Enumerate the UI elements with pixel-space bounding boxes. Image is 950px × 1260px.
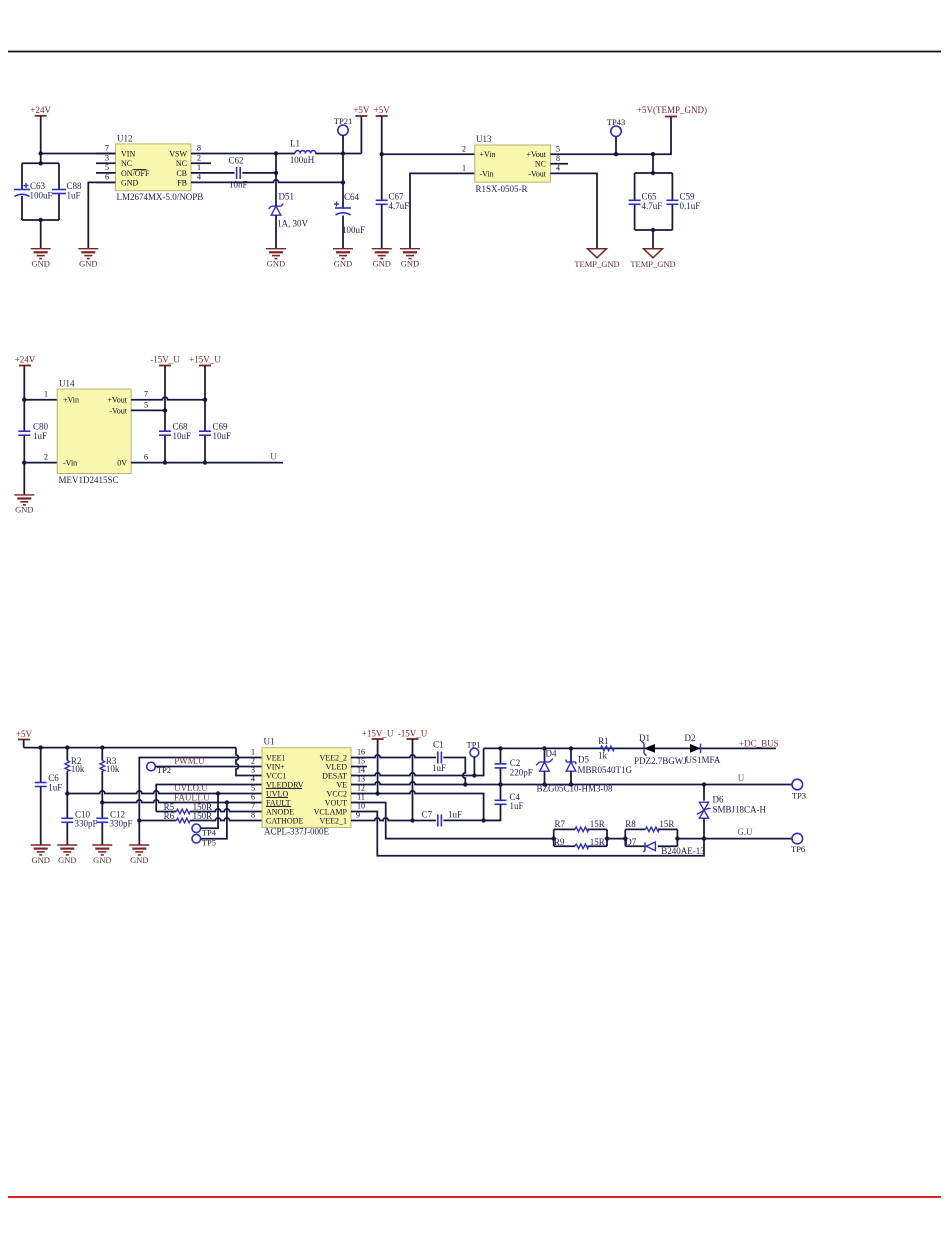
svg-text:C6: C6 — [48, 773, 59, 783]
svg-text:U: U — [270, 452, 277, 462]
svg-text:D2: D2 — [685, 733, 696, 743]
svg-text:ACPL-337J-000E: ACPL-337J-000E — [264, 827, 330, 837]
svg-text:1: 1 — [44, 390, 48, 399]
capacitor C64 (polarized 100uF) — [334, 192, 365, 235]
svg-text:8: 8 — [197, 144, 201, 153]
svg-text:1uF: 1uF — [33, 431, 47, 441]
svg-text:GND: GND — [334, 259, 352, 269]
node bottom of cap rect — [39, 218, 43, 222]
svg-text:FB: FB — [177, 179, 187, 188]
wire stem to cap rect — [652, 154, 654, 173]
svg-text:4: 4 — [197, 173, 201, 182]
wire R3 vertical — [101, 748, 103, 761]
capacitor C68 (10uF) — [159, 422, 191, 442]
converter U14 body — [57, 379, 131, 485]
svg-text:GND: GND — [401, 259, 419, 269]
svg-text:5: 5 — [144, 401, 148, 410]
wire gate line to TP6 — [677, 838, 792, 840]
wire clamp rail to +DC_BUS — [484, 747, 776, 749]
node rail/D5 — [569, 746, 573, 750]
node FAULT/TP5 — [225, 800, 229, 804]
capacitor C63 (polarized 100uF) — [14, 181, 53, 201]
resistor R3 (10k) — [100, 756, 120, 774]
svg-text:GND: GND — [79, 259, 97, 269]
power +15V_U — [189, 355, 221, 366]
ground GND (C10) — [57, 845, 77, 865]
node rail/R2 — [65, 745, 69, 749]
ground GND (VEE1) — [129, 845, 149, 865]
svg-text:LM2674MX-5.0/NOPB: LM2674MX-5.0/NOPB — [117, 192, 204, 202]
svg-text:C88: C88 — [67, 181, 83, 191]
svg-text:VEE2_2: VEE2_2 — [319, 753, 347, 762]
svg-text:+Vin: +Vin — [480, 150, 496, 159]
wire cap rect bottom — [22, 219, 59, 221]
pin 4 stub U12 — [191, 181, 211, 183]
pin 6 stub U14 — [131, 462, 151, 464]
wire VE line pin13 with hops to TP3 — [351, 782, 792, 785]
svg-text:8: 8 — [556, 154, 560, 163]
wire TP4 to UVLO node — [201, 794, 218, 829]
inductor L1 (100uH) — [290, 139, 316, 165]
node pin1 junction — [22, 398, 26, 402]
svg-text:FAULT.U: FAULT.U — [174, 792, 210, 802]
capacitor C7 (1uF) — [422, 809, 463, 826]
wire VOUT pin11 corner down to gate line — [351, 803, 554, 839]
svg-text:VEE2_1: VEE2_1 — [319, 816, 347, 825]
capacitor C62 (10nF) — [229, 156, 248, 190]
diode D51 (zener 1A,30V) — [269, 192, 309, 229]
svg-text:GND: GND — [121, 179, 139, 188]
svg-text:1uF: 1uF — [448, 809, 462, 819]
node cap rect bottom — [651, 228, 655, 232]
wire +Vout with hop over -15V vertical — [151, 397, 205, 400]
svg-text:NC: NC — [176, 159, 187, 168]
svg-text:GND: GND — [93, 855, 111, 865]
wire 0V line to net U — [151, 462, 283, 464]
svg-text:TP1: TP1 — [467, 739, 481, 749]
wire FB line with hop over D51 vertical — [211, 180, 343, 183]
capacitor C67 (4.7uF) — [376, 191, 410, 211]
svg-text:100uH: 100uH — [290, 155, 315, 165]
svg-text:+15V_U: +15V_U — [362, 729, 394, 739]
svg-text:+Vin: +Vin — [63, 396, 79, 405]
svg-text:15R: 15R — [590, 837, 605, 847]
svg-text:GND: GND — [31, 855, 49, 865]
wire left leg of C63 — [21, 163, 23, 189]
wire cap rect top — [22, 162, 59, 164]
svg-text:G.U: G.U — [737, 827, 753, 837]
testpoint TP4 — [192, 824, 217, 837]
svg-text:DESAT: DESAT — [322, 771, 347, 780]
wire -Vout to -15V vertical — [151, 409, 165, 411]
svg-text:D4: D4 — [546, 749, 557, 759]
wire R2 vertical — [66, 748, 68, 761]
wire CB to C62 — [211, 172, 235, 174]
wire C7 to VCC2 node — [443, 819, 500, 821]
node 0V/C68 — [163, 460, 167, 464]
wire C6 vertical — [40, 748, 42, 783]
wire cap rect bottom — [635, 229, 673, 231]
wire VCC2 pin12 with hop, corner down — [351, 791, 484, 821]
svg-text:3: 3 — [105, 153, 109, 162]
ground GND (U13 -Vin) — [400, 249, 420, 269]
svg-text:VIN+: VIN+ — [266, 762, 285, 771]
svg-text:330pF: 330pF — [75, 819, 98, 829]
node D4/VE — [542, 782, 546, 786]
svg-text:0.1uF: 0.1uF — [680, 201, 701, 211]
diode D2 (US1MFA) — [685, 733, 721, 765]
svg-text:TP43: TP43 — [607, 117, 625, 127]
wire to U14 -Vin — [24, 462, 57, 464]
wire C62 to VSW node — [242, 172, 276, 174]
node top of cap rect — [39, 161, 43, 165]
svg-text:C69: C69 — [213, 422, 229, 432]
wire +5V stem — [23, 740, 25, 748]
svg-text:NC: NC — [121, 159, 132, 168]
svg-text:CATHODE: CATHODE — [266, 816, 303, 825]
power +5V (second) — [374, 105, 391, 116]
wire +24V node to U12 VIN — [41, 153, 116, 155]
svg-text:VLED: VLED — [326, 762, 348, 771]
node R7R9 right — [605, 836, 609, 840]
svg-text:1: 1 — [197, 163, 201, 172]
pin 8 stub U12 — [191, 153, 211, 155]
node C2/C4/VE — [498, 782, 502, 786]
pin 5 stub U12 — [96, 172, 116, 174]
svg-text:TEMP_GND: TEMP_GND — [574, 259, 619, 269]
node rail/R3 — [100, 745, 104, 749]
svg-text:GND: GND — [31, 259, 49, 269]
svg-text:L1: L1 — [290, 139, 300, 149]
pin 8 stub U13 (NC) — [550, 163, 568, 165]
resistor R7 (15R) — [555, 819, 605, 832]
svg-text:PWM.U: PWM.U — [174, 756, 205, 766]
svg-text:VE: VE — [336, 780, 347, 789]
node rail/C2 — [498, 746, 502, 750]
node -Vout/-15V — [163, 408, 167, 412]
wire cap rect to TEMP_GND — [652, 230, 654, 249]
svg-text:-15V_U: -15V_U — [398, 729, 428, 739]
node rail/D4 — [542, 746, 546, 750]
wire -15V vertical to VEE2_1 — [412, 739, 414, 821]
svg-text:7: 7 — [144, 390, 148, 399]
pin 1 stub U12 — [191, 172, 211, 174]
power +15V_U (driver) — [362, 729, 394, 740]
pin 7 stub U14 — [131, 399, 151, 401]
resistor R6 (150R) — [164, 811, 213, 823]
svg-text:R6: R6 — [164, 811, 175, 821]
node R8D7 right — [675, 836, 679, 840]
resistor R8 (15R) — [625, 819, 674, 832]
ground GND (C63/C88) — [31, 249, 51, 269]
wire -15V vertical through C68 — [164, 366, 166, 432]
svg-text:1uF: 1uF — [48, 783, 62, 793]
pin 4 stub U13 — [550, 172, 570, 174]
wire R5 to ANODE with hops at TP4, TP5 verticals — [190, 809, 262, 812]
node VCC2/C7/C4 — [481, 818, 485, 822]
svg-text:10nF: 10nF — [229, 180, 248, 190]
node UVLO/TP4 — [216, 791, 220, 795]
power +24V — [30, 105, 51, 116]
pin 5 stub U13 — [550, 153, 570, 155]
svg-text:D6: D6 — [713, 794, 724, 804]
ground TEMP_GND (caps) — [630, 249, 675, 269]
svg-text:TEMP_GND: TEMP_GND — [630, 259, 675, 269]
capacitor C65 (4.7uF) — [629, 191, 663, 211]
node rail/C6 — [39, 745, 43, 749]
svg-text:1k: 1k — [598, 750, 608, 760]
wire DESAT pin14 with hops, corner up to clamp rail — [351, 748, 484, 775]
svg-text:-15V_U: -15V_U — [150, 355, 180, 365]
resistor network R8/D7 box — [625, 829, 677, 846]
svg-text:C1: C1 — [433, 739, 444, 749]
svg-text:+15V_U: +15V_U — [189, 355, 221, 365]
wire TP5 to FAULT node — [201, 803, 227, 839]
svg-text:+5V(TEMP_GND): +5V(TEMP_GND) — [637, 105, 707, 115]
testpoint TP3 — [792, 779, 806, 800]
svg-text:330pF: 330pF — [110, 819, 133, 829]
svg-text:C65: C65 — [642, 191, 658, 201]
node gate/D6/VCLAMP — [702, 836, 706, 840]
svg-text:U12: U12 — [117, 134, 133, 144]
svg-text:100uF: 100uF — [342, 225, 365, 235]
svg-text:C80: C80 — [33, 422, 49, 432]
wire VLEDDRV to R5 corner — [156, 785, 262, 812]
wire corner up to +5V — [360, 116, 362, 154]
resistor R1 (1k) — [598, 736, 614, 761]
svg-text:-Vout: -Vout — [528, 169, 546, 178]
wire cap rect top — [635, 172, 673, 174]
wire R6 line from GND vertical — [139, 820, 176, 822]
node L1 output — [341, 151, 345, 155]
svg-text:2: 2 — [251, 757, 255, 766]
svg-text:VEE1: VEE1 — [266, 753, 286, 762]
svg-text:VSW: VSW — [169, 149, 187, 158]
driver U1 body — [262, 737, 351, 837]
ground TEMP_GND (-Vout) — [574, 249, 619, 269]
wire +24V stem down through C80 — [23, 366, 25, 432]
wire right leg C59 — [671, 173, 673, 200]
pin 2 stub U12 (NC) — [191, 162, 211, 164]
svg-text:TP6: TP6 — [791, 844, 805, 854]
testpoint TP1 — [467, 739, 481, 757]
svg-text:2: 2 — [197, 153, 201, 162]
node C62/D51 vertical — [274, 171, 278, 175]
svg-text:+24V: +24V — [15, 355, 36, 365]
svg-text:MBR0540T1G: MBR0540T1G — [578, 765, 633, 775]
diode D4 (BZG05C10-HM3-08 zener) — [536, 748, 613, 793]
svg-text:GND: GND — [15, 505, 33, 515]
svg-text:FAULT: FAULT — [266, 798, 291, 807]
pin 5 stub U14 — [131, 409, 151, 411]
ground GND (U12) — [78, 249, 98, 269]
svg-text:6: 6 — [105, 173, 109, 182]
ground GND (D51) — [266, 249, 286, 269]
pin 6 stub U12 — [96, 181, 116, 183]
svg-text:1uF: 1uF — [67, 191, 81, 201]
svg-text:+Vout: +Vout — [108, 396, 128, 405]
wire rect bottom to GND — [40, 220, 42, 249]
svg-text:UVLO: UVLO — [266, 789, 288, 798]
svg-text:C67: C67 — [389, 191, 405, 201]
svg-text:+DC_BUS: +DC_BUS — [739, 738, 779, 748]
svg-text:6: 6 — [144, 453, 148, 462]
svg-text:GND: GND — [58, 855, 76, 865]
svg-text:D51: D51 — [279, 192, 295, 202]
wire C64 to GND — [342, 216, 344, 249]
svg-text:R1: R1 — [598, 736, 609, 746]
svg-text:U13: U13 — [476, 134, 492, 144]
node TP1/DESAT — [472, 773, 476, 777]
resistor R9 (15R) — [554, 837, 605, 849]
svg-text:MEV1D2415SC: MEV1D2415SC — [59, 475, 119, 485]
svg-text:ON/OFF: ON/OFF — [121, 169, 150, 178]
node +Vout/+15V — [203, 398, 207, 402]
capacitor C59 (0.1uF) — [666, 191, 700, 211]
wire C1 to VE with vertical hop over DESAT — [443, 758, 465, 785]
svg-text:2: 2 — [462, 144, 466, 153]
svg-text:TP3: TP3 — [792, 790, 806, 800]
svg-text:US1MFA: US1MFA — [686, 755, 721, 765]
wire C67 to GND — [381, 204, 383, 248]
svg-text:5: 5 — [556, 144, 560, 153]
svg-text:1: 1 — [251, 748, 255, 757]
wire +15V vertical to VCC2 — [377, 739, 379, 794]
svg-text:3: 3 — [251, 766, 255, 775]
wire TP21 stem — [342, 135, 344, 153]
ground GND (U14) — [14, 495, 34, 515]
svg-text:4.7uF: 4.7uF — [642, 201, 663, 211]
capacitor C6 (1uF) — [35, 773, 63, 793]
svg-text:-Vin: -Vin — [63, 459, 77, 468]
svg-text:C64: C64 — [344, 192, 360, 202]
node +24V junction — [39, 151, 43, 155]
wire D51 to GND — [275, 215, 277, 249]
wire L1 to +5V corner — [315, 153, 361, 155]
svg-text:VCC2: VCC2 — [327, 789, 347, 798]
wire VEE1 pin1 to GND vertical — [139, 758, 262, 846]
svg-text:4.7uF: 4.7uF — [389, 201, 410, 211]
wire TP2 to VIN+ — [155, 766, 262, 768]
power +24V (U14) — [15, 355, 36, 366]
svg-text:PDZ2.7BGWJ: PDZ2.7BGWJ — [634, 756, 687, 766]
svg-text:7: 7 — [105, 144, 109, 153]
wire C64 vertical — [342, 154, 344, 209]
svg-text:TP21: TP21 — [334, 116, 352, 126]
svg-text:B240AE-13: B240AE-13 — [661, 846, 705, 856]
resistor R5 (150R) — [156, 802, 212, 814]
svg-text:C62: C62 — [229, 156, 244, 166]
svg-text:R8: R8 — [625, 819, 636, 829]
testpoint TP6 — [791, 833, 805, 854]
pin 15 stub (NC) — [351, 766, 367, 768]
node +15V/VCC2 — [375, 791, 379, 795]
resistor network R7/R9 box — [554, 829, 607, 846]
svg-text:1uF: 1uF — [432, 763, 446, 773]
top border line — [8, 51, 941, 53]
svg-text:1uF: 1uF — [510, 801, 524, 811]
testpoint TP43 — [607, 117, 625, 137]
wire VEE2_2 pin16 to C1 with hops — [351, 755, 436, 758]
wire down to GND — [23, 463, 25, 495]
svg-text:7: 7 — [251, 802, 255, 811]
svg-text:+5V: +5V — [353, 105, 370, 115]
svg-text:U: U — [738, 773, 745, 783]
svg-text:8: 8 — [251, 811, 255, 820]
wire +15V vertical through C69 — [204, 366, 206, 432]
pin 3 stub U12 — [96, 162, 116, 164]
power -15V_U (driver) — [398, 729, 428, 740]
node VE/D6 — [702, 782, 706, 786]
capacitor C1 (1uF) — [432, 739, 446, 773]
power +5V (first) — [353, 105, 370, 116]
svg-text:VLEDDRV: VLEDDRV — [266, 780, 304, 789]
wire VCLAMP pin10 corner down to lower rail — [351, 812, 704, 856]
capacitor C10 (330pF) — [61, 810, 97, 829]
svg-text:2: 2 — [44, 453, 48, 462]
svg-text:+Vout: +Vout — [527, 150, 547, 159]
wire to U14 +Vin — [24, 399, 57, 401]
svg-text:5: 5 — [105, 163, 109, 172]
node cap rect top — [651, 171, 655, 175]
capacitor C4 (1uF) — [484, 785, 524, 821]
node FB/output — [341, 180, 345, 184]
svg-text:VIN: VIN — [121, 149, 135, 158]
wire VCC1 corner down with hops over pins 1,2 — [236, 748, 262, 776]
node R7R9 left — [552, 836, 556, 840]
svg-text:1: 1 — [462, 164, 466, 173]
wire +5V node to U13 pin2 — [382, 153, 475, 155]
power +5V(TEMP_GND) — [637, 105, 707, 117]
resistor R2 (10k) — [65, 756, 85, 774]
wire R6 to CATHODE with hops at TP4, TP5 verticals — [190, 818, 262, 821]
diode D1 (PDZ2.7BGWJ zener, cathode left) — [634, 733, 687, 766]
ground GND (C12) — [92, 845, 112, 865]
wire D51 vertical — [275, 154, 277, 207]
wire VEE2_1 pin9 with hops to C7 — [351, 818, 436, 821]
ground GND (C6) — [31, 845, 51, 865]
svg-text:0V: 0V — [117, 459, 127, 468]
svg-text:-Vout: -Vout — [109, 406, 127, 415]
capacitor C2 (220pF) — [495, 748, 533, 784]
node TP43 — [614, 152, 618, 156]
pin 7 stub U12 — [96, 153, 116, 155]
node R3/FAULT — [100, 800, 104, 804]
power -15V_U — [150, 355, 180, 366]
capacitor C12 (330pF) — [96, 810, 132, 829]
svg-text:5: 5 — [251, 784, 255, 793]
svg-text:NC: NC — [535, 160, 546, 169]
svg-text:10uF: 10uF — [213, 431, 232, 441]
node +5V / U13 input — [380, 152, 384, 156]
svg-text:R1SX-0505-R: R1SX-0505-R — [476, 184, 528, 194]
svg-text:+5V: +5V — [374, 105, 391, 115]
svg-text:1A, 30V: 1A, 30V — [277, 219, 308, 229]
node 0V/C69 — [203, 460, 207, 464]
svg-text:4: 4 — [251, 775, 255, 784]
testpoint TP21 — [334, 116, 352, 135]
svg-text:D1: D1 — [639, 733, 650, 743]
power +5V (driver) — [16, 729, 33, 740]
wire FAULT line with hops at GND vert, R5 vert — [102, 800, 262, 803]
testpoint TP5 — [192, 834, 216, 847]
testpoint TP2 — [147, 762, 171, 775]
svg-text:-Vin: -Vin — [480, 169, 494, 178]
diode D6 (SMBJ18CA-H bidirectional TVS) — [697, 785, 767, 839]
node D5/VE — [569, 782, 573, 786]
node R2/UVLO — [65, 791, 69, 795]
svg-text:10uF: 10uF — [173, 431, 192, 441]
